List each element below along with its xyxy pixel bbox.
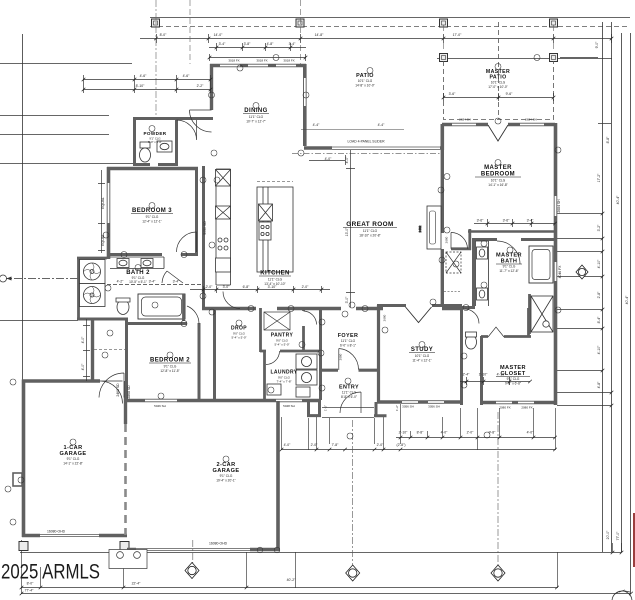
bedroom3 window west wall xyxy=(107,183,110,223)
room label FOYER xyxy=(338,333,359,348)
svg-text:9'1" CLG: 9'1" CLG xyxy=(164,365,177,369)
svg-text:17'-0": 17'-0" xyxy=(453,33,462,37)
svg-text:2'-0": 2'-0" xyxy=(467,431,475,435)
svg-text:17'-2": 17'-2" xyxy=(597,173,601,182)
svg-text:KITCHEN: KITCHEN xyxy=(260,271,289,277)
svg-text:3'-4": 3'-4" xyxy=(219,42,227,46)
svg-text:EQUAL: EQUAL xyxy=(101,197,105,209)
svg-text:3'-8": 3'-8" xyxy=(244,42,252,46)
door arc foyer-entry xyxy=(339,349,359,371)
left wing west exterior wall xyxy=(107,167,111,259)
dining left wall xyxy=(210,64,213,110)
svg-text:(2'-8"): (2'-8") xyxy=(396,443,405,447)
bedroom2 left wall xyxy=(125,319,128,402)
svg-text:4'-0": 4'-0" xyxy=(441,431,449,435)
master toilet xyxy=(466,332,477,349)
left closet dim line xyxy=(83,319,90,381)
svg-text:10'-5" x 5'-1": 10'-5" x 5'-1" xyxy=(129,280,147,284)
bath2 top wall xyxy=(107,253,198,256)
W/D alcove left wall xyxy=(77,257,80,320)
svg-text:GREAT ROOM: GREAT ROOM xyxy=(346,221,394,228)
svg-text:11'1" CLG: 11'1" CLG xyxy=(268,278,283,282)
svg-text:16080-OHD: 16080-OHD xyxy=(209,542,228,546)
svg-text:77'-4": 77'-4" xyxy=(25,589,34,593)
hall niche dims dashed xyxy=(444,291,460,293)
svg-text:9'1" CLG: 9'1" CLG xyxy=(507,377,520,381)
svg-text:10'1" CLG: 10'1" CLG xyxy=(415,354,430,358)
bath2 bottom wall xyxy=(77,318,128,321)
svg-text:10'1" CLG: 10'1" CLG xyxy=(358,79,373,83)
svg-text:4'-0": 4'-0" xyxy=(527,431,535,435)
post top-4 xyxy=(550,19,558,27)
shower left wall xyxy=(528,294,531,334)
room label 2-CAR GARAGE xyxy=(213,462,240,483)
svg-text:8'-4": 8'-4" xyxy=(597,316,601,324)
svg-text:1'-10": 1'-10" xyxy=(479,373,488,377)
door arc bedroom2 closet xyxy=(99,373,124,398)
svg-text:7'-8": 7'-8" xyxy=(332,443,340,447)
small circled markers xyxy=(5,55,561,553)
study bottom wall xyxy=(377,400,463,404)
toilet room walls xyxy=(461,306,474,405)
svg-text:4'-10": 4'-10" xyxy=(497,373,506,377)
svg-text:17'-0" x 10'-0": 17'-0" x 10'-0" xyxy=(488,85,508,89)
powder toilet xyxy=(140,142,151,162)
door arc master closet double V xyxy=(488,327,504,337)
svg-text:4'-4": 4'-4" xyxy=(313,123,321,127)
svg-text:1'-2": 1'-2" xyxy=(324,405,328,411)
study bottom windows xyxy=(402,401,444,404)
door arc laundry xyxy=(266,351,280,365)
bottom dim witness lines xyxy=(22,404,622,594)
master patio dimension line xyxy=(437,58,612,60)
kitchen left wall xyxy=(202,166,205,310)
svg-text:9'-0": 9'-0" xyxy=(595,41,599,49)
door arc master hall xyxy=(451,232,468,248)
svg-text:BEDROOM 2: BEDROOM 2 xyxy=(150,358,190,364)
svg-text:5050 XO: 5050 XO xyxy=(203,221,207,235)
svg-text:2'-8": 2'-8" xyxy=(597,291,601,299)
svg-text:POWDER: POWDER xyxy=(143,131,166,136)
great room top dims xyxy=(309,155,346,165)
bottom dimension lines xyxy=(20,438,631,594)
svg-text:2'-2": 2'-2" xyxy=(197,84,205,88)
pantry right wall xyxy=(302,308,305,352)
closet shelf dashed xyxy=(94,349,125,351)
svg-text:4'-6": 4'-6" xyxy=(140,74,148,78)
svg-text:3'-4": 3'-4" xyxy=(149,280,157,284)
drop left wall xyxy=(213,308,216,402)
svg-text:12'-8" x 11'-5": 12'-8" x 11'-5" xyxy=(160,369,179,373)
svg-text:40'-4": 40'-4" xyxy=(625,295,629,304)
hall dashed dim at bath2 xyxy=(107,284,203,286)
post top-2 xyxy=(296,19,304,27)
svg-text:BEDROOM 3: BEDROOM 3 xyxy=(132,208,172,214)
bath2 toilet xyxy=(116,298,130,315)
rotated dim texts right side xyxy=(81,41,629,540)
svg-text:10'1" CLG: 10'1" CLG xyxy=(491,179,506,183)
svg-text:4'-8": 4'-8" xyxy=(597,381,601,389)
bath2 vanity xyxy=(110,257,164,269)
svg-text:8'-8": 8'-8" xyxy=(606,136,610,144)
top dim ticks xyxy=(157,34,612,43)
svg-text:11'1" CLG: 11'1" CLG xyxy=(363,229,378,233)
vertical centerlines from posts xyxy=(156,0,554,117)
svg-text:2680: 2680 xyxy=(383,314,387,321)
room label PANTRY xyxy=(271,333,294,347)
svg-text:4'-8": 4'-8" xyxy=(267,42,275,46)
W/D units left xyxy=(80,260,106,307)
svg-text:2462: 2462 xyxy=(418,225,422,232)
svg-text:4'-4": 4'-4" xyxy=(378,123,386,127)
bath2 tub xyxy=(138,294,185,319)
svg-text:2080 FX: 2080 FX xyxy=(521,406,532,410)
svg-text:2684 SH: 2684 SH xyxy=(557,199,561,213)
svg-text:11'1" CLG: 11'1" CLG xyxy=(341,339,356,343)
svg-text:9'1" CLG: 9'1" CLG xyxy=(220,474,233,478)
svg-text:5048 SH: 5048 SH xyxy=(283,404,295,408)
pantry bottom / laundry top wall xyxy=(260,350,322,353)
room label LAUNDRY xyxy=(270,370,297,384)
svg-text:3'-6": 3'-6" xyxy=(449,92,457,96)
master patio dashed outline xyxy=(444,22,554,120)
svg-text:3'-0": 3'-0" xyxy=(223,285,231,289)
svg-text:4'-0": 4'-0" xyxy=(81,363,85,371)
entry left wall xyxy=(319,308,322,400)
svg-text:9'1" CLG: 9'1" CLG xyxy=(146,215,159,219)
2-car garage bottom wall xyxy=(127,548,280,552)
study west wall xyxy=(377,305,380,402)
svg-text:2684 SH: 2684 SH xyxy=(525,118,537,122)
svg-text:MASTER: MASTER xyxy=(484,165,512,171)
house front wall (over garage, bedroom2, laundry) xyxy=(124,399,321,403)
svg-text:3'-4": 3'-4" xyxy=(289,42,297,46)
master bedroom french V xyxy=(488,125,508,141)
diamond marker bottom-0 xyxy=(185,563,199,579)
post row2 left xyxy=(440,54,448,62)
svg-text:2680: 2680 xyxy=(339,353,343,360)
svg-text:2'-4": 2'-4" xyxy=(463,373,471,377)
svg-text:3'-2": 3'-2" xyxy=(597,224,601,232)
svg-text:16080-OHD: 16080-OHD xyxy=(47,530,66,534)
bedroom3 right wall xyxy=(195,168,198,253)
svg-text:4'-10": 4'-10" xyxy=(597,259,601,268)
master east windows xyxy=(554,196,557,281)
garage apron detail xyxy=(109,550,147,569)
svg-text:3'-6": 3'-6" xyxy=(477,219,485,223)
compass bottom right xyxy=(612,590,632,600)
svg-text:14'-1" x 22'-8": 14'-1" x 22'-8" xyxy=(63,462,83,466)
garage divider dashed xyxy=(124,424,127,535)
porch column right xyxy=(374,402,387,416)
svg-text:8'-10": 8'-10" xyxy=(136,84,145,88)
great room top wall with slider xyxy=(304,146,444,150)
room label GREAT ROOM xyxy=(343,221,397,238)
svg-text:2868 SD: 2868 SD xyxy=(127,385,131,399)
kitchen island xyxy=(257,182,293,273)
room label MASTER BEDROOM xyxy=(475,165,521,187)
svg-text:3018 FX: 3018 FX xyxy=(256,59,267,63)
room label 1-CAR GARAGE xyxy=(60,445,87,466)
2-car garage right wall xyxy=(276,401,280,551)
svg-text:LOAD 4-PANEL SLIDER: LOAD 4-PANEL SLIDER xyxy=(347,140,385,144)
svg-text:11'1" CLG: 11'1" CLG xyxy=(249,115,264,119)
door arc bedroom3 xyxy=(177,232,197,252)
svg-text:7'-4" x 7'-8": 7'-4" x 7'-8" xyxy=(276,380,291,384)
room label DROP xyxy=(231,326,247,340)
svg-text:11'1" CLG: 11'1" CLG xyxy=(342,391,357,395)
watermark xyxy=(1,561,100,584)
master bedroom west wall upper xyxy=(440,124,444,150)
closet top wall xyxy=(481,308,531,337)
study french doors V xyxy=(406,307,432,323)
powder bottom wall right part xyxy=(158,163,178,166)
svg-text:4'-0": 4'-0" xyxy=(325,157,333,161)
door arc toilet room xyxy=(465,309,480,324)
svg-text:9'1" CLG: 9'1" CLG xyxy=(67,457,80,461)
svg-text:18'-10" x 20'-8": 18'-10" x 20'-8" xyxy=(359,234,380,238)
svg-text:1'-2": 1'-2" xyxy=(395,405,399,411)
svg-text:40'-2": 40'-2" xyxy=(287,578,296,582)
room label POWDER xyxy=(143,131,166,144)
svg-text:3'-4": 3'-4" xyxy=(173,280,181,284)
1-car garage right wall xyxy=(124,381,127,424)
red edge strip xyxy=(633,513,635,567)
dining top wall xyxy=(210,64,306,68)
footing square mid xyxy=(120,542,129,551)
diamond marker bottom-2 xyxy=(491,565,505,581)
svg-text:3'-6": 3'-6" xyxy=(503,219,511,223)
svg-text:9'-6": 9'-6" xyxy=(506,92,514,96)
svg-text:8'-8" x 6'-0": 8'-8" x 6'-0" xyxy=(341,395,357,399)
svg-text:10'-7" x 12'-7": 10'-7" x 12'-7" xyxy=(246,120,266,124)
post top-1 xyxy=(152,19,160,27)
svg-text:8'-0": 8'-0" xyxy=(160,33,168,37)
svg-text:4'-0": 4'-0" xyxy=(81,336,85,344)
porch threshold lines xyxy=(322,408,374,418)
svg-text:3018 FX: 3018 FX xyxy=(228,59,239,63)
svg-text:6'-0" x 8'-1": 6'-0" x 8'-1" xyxy=(340,344,356,348)
svg-text:12'-4" x 12'-1": 12'-4" x 12'-1" xyxy=(142,220,162,224)
dining dims xyxy=(209,43,306,51)
master top windows xyxy=(452,123,544,126)
foyer south wall xyxy=(321,369,380,372)
front door arc xyxy=(340,392,361,413)
laundry left wall xyxy=(263,351,266,401)
great room right wall xyxy=(442,146,462,309)
media niche great room xyxy=(427,206,441,249)
bedroom2 front window xyxy=(145,399,177,402)
left centerline dash-dot xyxy=(0,278,104,280)
porch column left xyxy=(307,399,321,416)
pantry shelves X xyxy=(264,312,290,330)
master bath left wall xyxy=(472,239,475,309)
svg-text:2'-0": 2'-0" xyxy=(302,285,310,289)
dashed center vlines bottom xyxy=(193,412,498,566)
svg-text:9'-8" x 6'-8": 9'-8" x 6'-8" xyxy=(505,382,521,386)
closet bottom windows xyxy=(496,401,534,404)
wall powder to dining xyxy=(177,117,214,120)
svg-text:5'-4" x 5'-0": 5'-4" x 5'-0" xyxy=(274,343,289,347)
master east exterior wall xyxy=(554,123,558,405)
svg-text:2'-10": 2'-10" xyxy=(399,431,408,435)
master bedroom bottom dims xyxy=(474,219,555,227)
1-car garage left wall xyxy=(22,380,26,538)
laundry front window xyxy=(276,399,302,402)
top dashed lot line xyxy=(150,17,630,19)
garage left bump xyxy=(13,473,22,486)
circle marker left xyxy=(0,275,7,282)
door arc drop xyxy=(223,292,240,309)
room label ENTRY xyxy=(339,385,359,400)
powder room walls xyxy=(135,117,177,166)
svg-text:14'-8" x 10'-0": 14'-8" x 10'-0" xyxy=(355,84,375,88)
master bath vanity xyxy=(476,241,489,306)
svg-text:13'-0": 13'-0" xyxy=(345,227,349,236)
bedroom2 top wall xyxy=(127,322,187,325)
master bedroom top wall xyxy=(442,123,555,127)
svg-text:2468 SD: 2468 SD xyxy=(116,383,120,397)
post row2 right xyxy=(550,54,558,62)
right vertical dimension lines xyxy=(603,22,631,594)
door arc master bath xyxy=(497,241,520,264)
svg-text:20'-0": 20'-0" xyxy=(606,530,610,539)
room label BATH 2 xyxy=(126,270,150,284)
svg-text:14'-0": 14'-0" xyxy=(214,33,223,37)
svg-text:4'-0": 4'-0" xyxy=(284,443,292,447)
svg-text:14'-8": 14'-8" xyxy=(315,33,324,37)
master bedroom bottom wall xyxy=(468,230,556,233)
svg-text:19'-4" x 20'-1": 19'-4" x 20'-1" xyxy=(216,479,236,483)
room label PATIO xyxy=(355,73,375,88)
study top wall xyxy=(377,304,462,307)
right dim ticks xyxy=(557,58,611,406)
svg-text:2'-0": 2'-0" xyxy=(311,443,319,447)
svg-text:3056 SH: 3056 SH xyxy=(428,405,440,409)
post top-3 xyxy=(440,19,448,27)
svg-text:4046 FX: 4046 FX xyxy=(558,265,562,279)
patio slab edge line xyxy=(301,129,404,131)
diamond marker right wall xyxy=(576,265,588,279)
svg-text:77'-0": 77'-0" xyxy=(616,531,620,540)
door arc pantry-foyer xyxy=(304,311,317,325)
svg-text:5'-0" x 5'-6": 5'-0" x 5'-6" xyxy=(148,140,162,144)
svg-text:3'-10": 3'-10" xyxy=(268,285,277,289)
room label KITCHEN xyxy=(259,271,291,287)
top dimension line xyxy=(140,38,612,40)
master patio dim row xyxy=(444,93,555,101)
kitchen bottom dims xyxy=(190,286,330,293)
closet left wall xyxy=(480,336,483,405)
door arc hall-garage xyxy=(100,381,123,404)
svg-text:2684 SH: 2684 SH xyxy=(459,118,471,122)
1-car garage top wall xyxy=(22,379,100,383)
svg-text:3'-0": 3'-0" xyxy=(345,296,349,304)
master tub xyxy=(529,246,553,283)
pantry/drop divider wall xyxy=(259,308,262,352)
master shower xyxy=(531,296,553,332)
svg-text:3018 FX: 3018 FX xyxy=(283,59,294,63)
door arc powder xyxy=(177,120,197,140)
svg-text:2'-0": 2'-0" xyxy=(206,285,214,289)
patio roof overhang dash-dot xyxy=(292,152,443,154)
bedroom3 top wall xyxy=(107,167,198,171)
door arc bath2 diagonal xyxy=(162,271,183,283)
svg-text:5'-4" x 5'-0": 5'-4" x 5'-0" xyxy=(231,336,246,340)
svg-text:3056 SH: 3056 SH xyxy=(402,405,414,409)
svg-text:2'-0": 2'-0" xyxy=(377,443,385,447)
closet top dim row xyxy=(460,377,530,385)
svg-text:5046 SH: 5046 SH xyxy=(154,404,166,408)
dining right wall xyxy=(303,64,307,146)
svg-text:BEDROOM: BEDROOM xyxy=(481,172,515,178)
1-car garage bottom wall xyxy=(22,534,127,538)
laundry washer dryer xyxy=(267,354,317,397)
great room vertical dim chain xyxy=(346,150,355,307)
svg-text:10'1" CLG: 10'1" CLG xyxy=(491,81,506,85)
1-car garage door line xyxy=(40,535,99,537)
room label MASTER CLOSET xyxy=(496,365,530,386)
powder sink xyxy=(157,141,172,152)
svg-text:4'-2": 4'-2" xyxy=(117,280,125,284)
svg-text:2080 FX: 2080 FX xyxy=(499,406,510,410)
svg-text:11'-4" x 12'-1": 11'-4" x 12'-1" xyxy=(412,359,431,363)
left lot lines xyxy=(0,34,133,380)
footing square left xyxy=(19,542,28,551)
svg-text:14'-1" x 16'-8": 14'-1" x 16'-8" xyxy=(488,183,508,187)
dining right window xyxy=(304,78,306,106)
svg-text:4'-0": 4'-0" xyxy=(345,156,349,164)
master bath top wall xyxy=(472,238,557,241)
svg-text:22'-4": 22'-4" xyxy=(132,582,141,586)
powder dims xyxy=(83,75,211,93)
closet bottom wall xyxy=(480,401,557,405)
room label BEDROOM 2 xyxy=(149,358,191,374)
2-car garage door line xyxy=(136,549,250,551)
dining window lines top xyxy=(220,64,296,66)
svg-text:2025 ARMLS: 2025 ARMLS xyxy=(1,561,100,584)
svg-text:4'-6": 4'-6" xyxy=(183,74,191,78)
door arc bedroom2 xyxy=(187,306,199,324)
svg-text:4'-10": 4'-10" xyxy=(597,345,601,354)
svg-text:11'-7" x 12'-6": 11'-7" x 12'-6" xyxy=(499,269,518,273)
door arc dining-hall xyxy=(190,110,212,132)
bedroom2 right wall xyxy=(198,323,201,402)
tub right wall xyxy=(182,294,185,321)
svg-text:9'1" CLG: 9'1" CLG xyxy=(503,265,516,269)
svg-text:40'-4": 40'-4" xyxy=(616,195,620,204)
bedroom2 closet west wall xyxy=(91,319,94,382)
kitchen left counter xyxy=(216,169,231,285)
svg-text:8'-8": 8'-8" xyxy=(417,431,425,435)
svg-text:DINING: DINING xyxy=(244,108,267,114)
master hall south wall xyxy=(451,229,471,250)
room label MASTER BATH xyxy=(496,253,522,274)
bedroom3 equal dim line xyxy=(98,170,105,253)
svg-text:6'-8": 6'-8" xyxy=(243,285,251,289)
room label DINING xyxy=(243,108,269,124)
W/D alcove top wall xyxy=(77,257,107,260)
diamond marker bottom-1 xyxy=(346,565,360,581)
foyer top walls xyxy=(322,307,383,311)
svg-text:2680: 2680 xyxy=(445,236,449,243)
room label STUDY xyxy=(409,347,435,363)
room label BEDROOM 3 xyxy=(131,208,173,224)
linen niche X xyxy=(446,252,461,273)
room label MASTER PATIO xyxy=(486,69,510,89)
svg-text:STUDY: STUDY xyxy=(411,347,433,353)
kitchen / greatroom bottom wall xyxy=(202,307,322,311)
